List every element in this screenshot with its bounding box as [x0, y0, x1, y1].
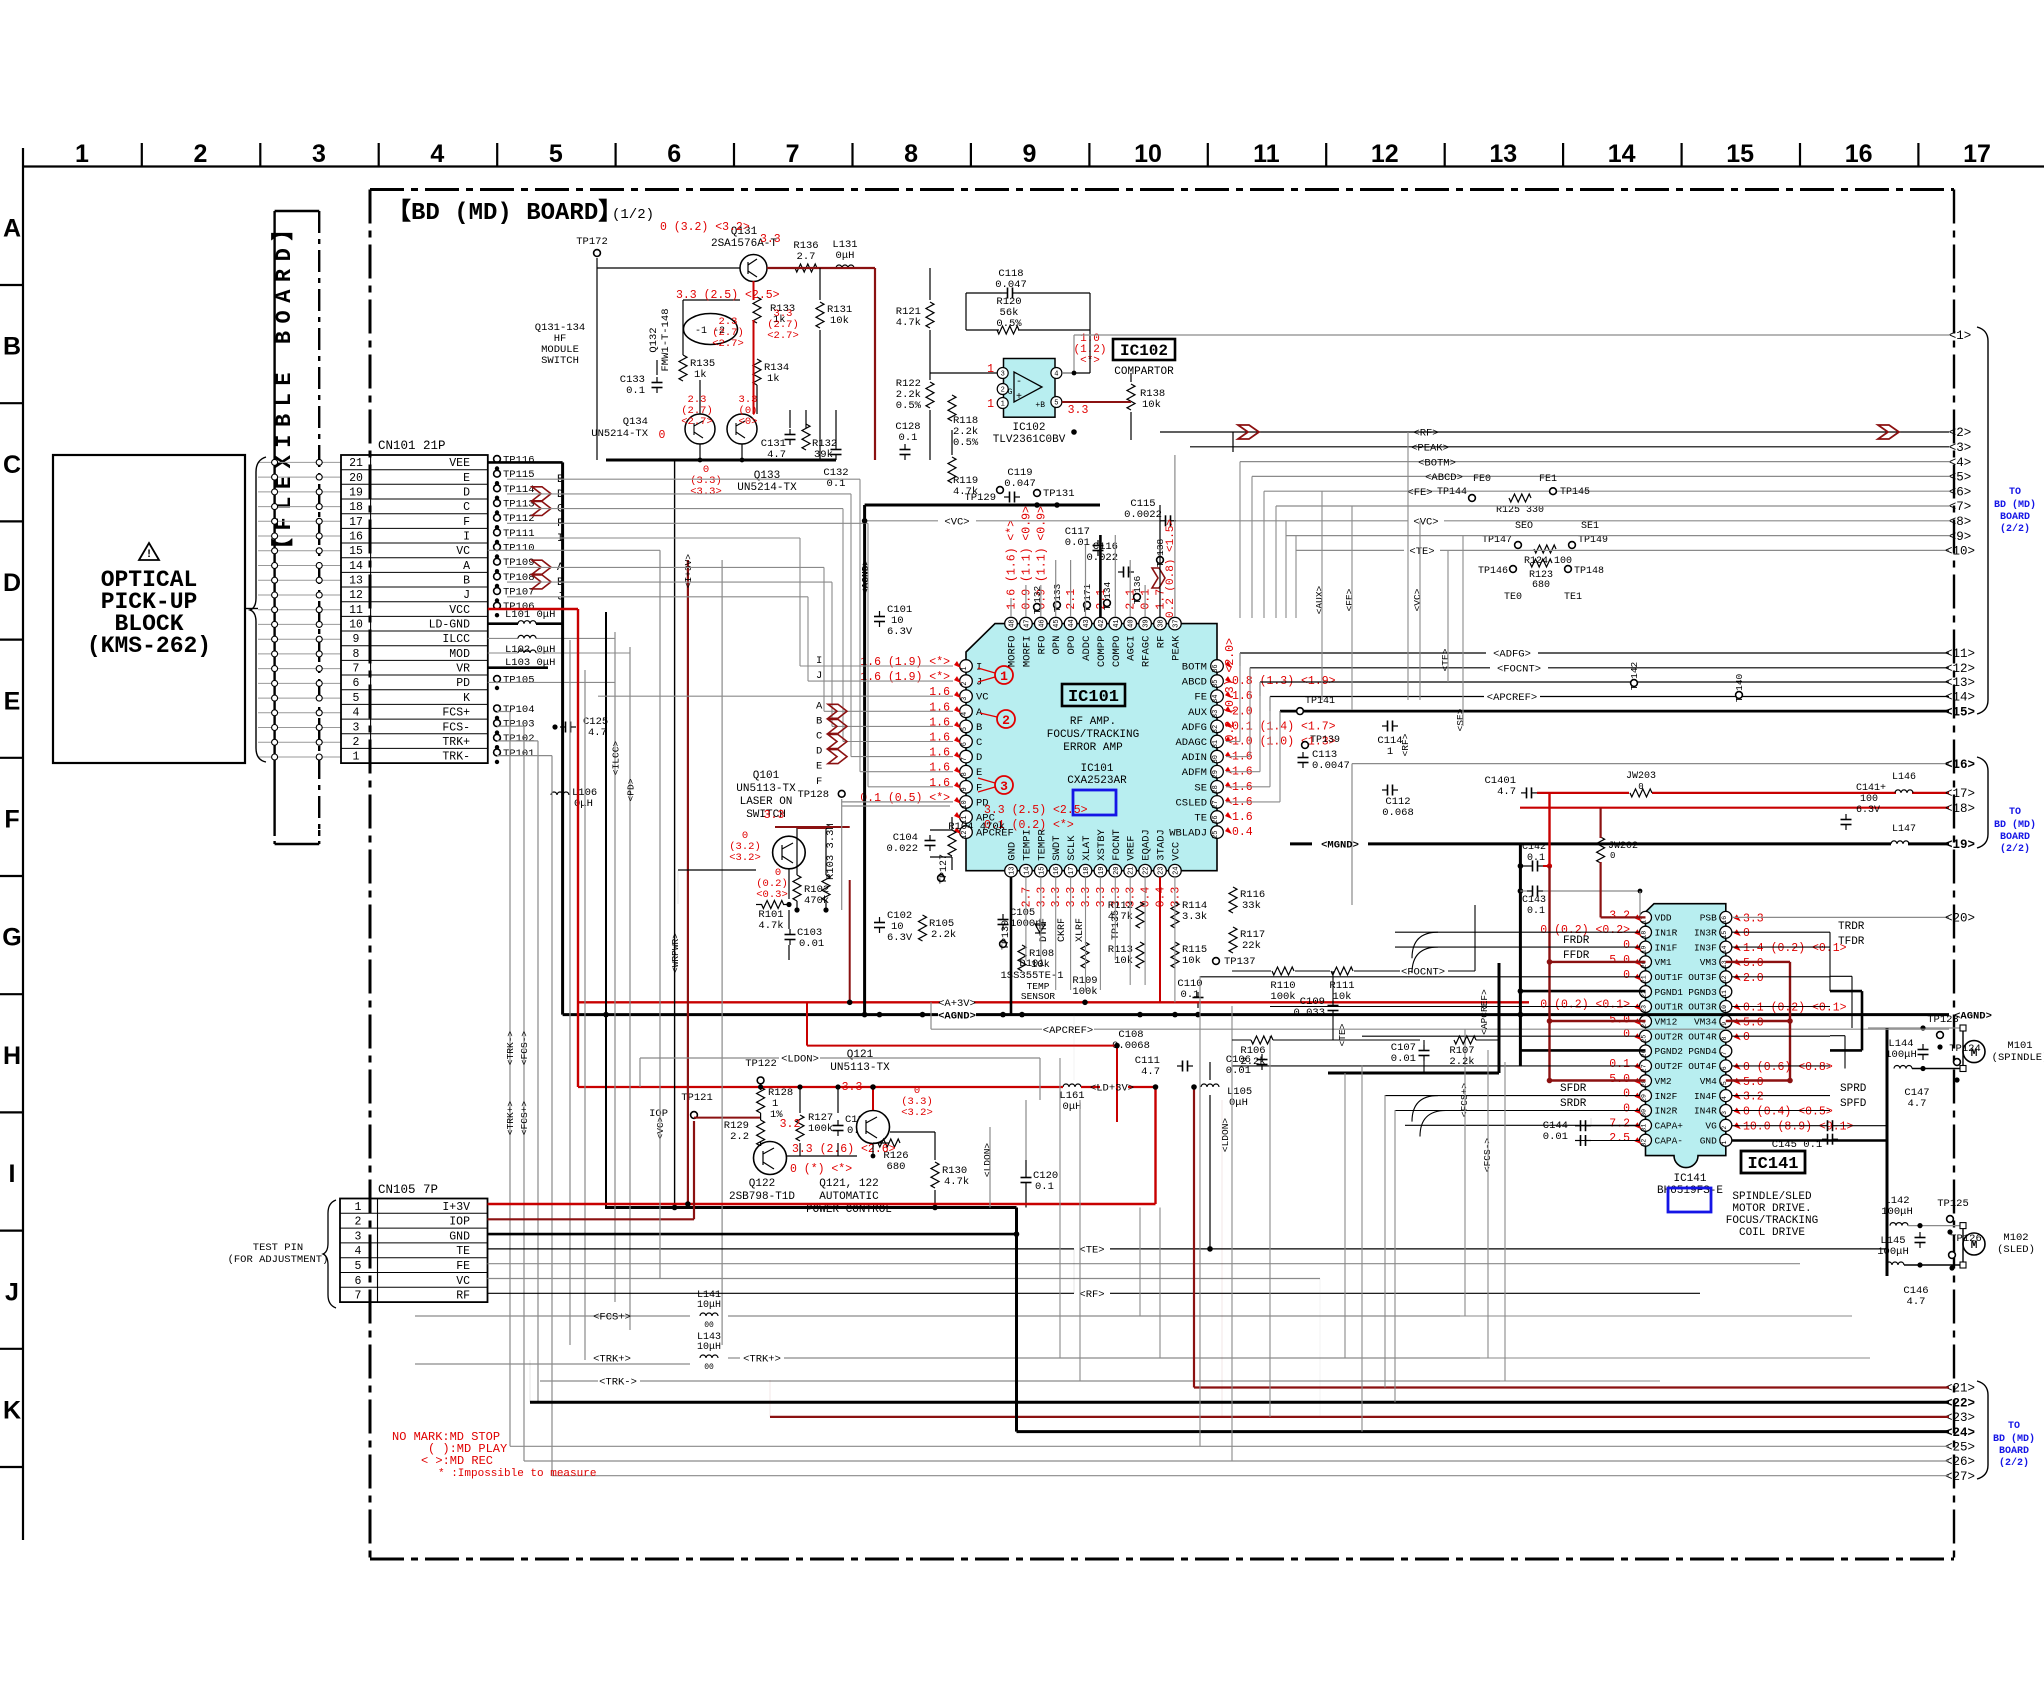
svg-text:PSB: PSB [1700, 913, 1717, 924]
resistor R113 10k [1136, 942, 1144, 968]
svg-text:K: K [3, 1397, 21, 1425]
svg-text:<PEAK>: <PEAK> [1411, 443, 1449, 455]
svg-text:<FE>: <FE> [1344, 588, 1355, 611]
svg-text:TP172: TP172 [576, 236, 608, 248]
svg-text:0.1 (0.2) <0.1>: 0.1 (0.2) <0.1> [1743, 1002, 1847, 1015]
capacitor C109 0.033 [1332, 1000, 1334, 1006]
svg-text:Q101: Q101 [753, 770, 780, 782]
svg-text:3: 3 [353, 721, 360, 734]
svg-text:<TE>: <TE> [1440, 648, 1451, 671]
wire vertical dark red Q101 [849, 880, 851, 1002]
wire thick bus mid [1328, 1072, 1499, 1075]
svg-text:R104 470k: R104 470k [948, 821, 1005, 833]
wire row26 [524, 1460, 1949, 1462]
wire row1 to edge [1074, 334, 1949, 336]
capacitor C101 10 6.3V [879, 611, 881, 617]
svg-text:8: 8 [961, 772, 969, 776]
svg-text:CXA2523AR: CXA2523AR [1067, 775, 1127, 787]
svg-text:0.1: 0.1 [899, 432, 918, 444]
svg-text:25: 25 [1212, 830, 1220, 838]
svg-text:EQADJ: EQADJ [1141, 829, 1153, 861]
wire thick VC bus top [865, 504, 1100, 507]
red chevron arrows CN101 [532, 487, 551, 589]
svg-text:3.3 (2.5) <2.5>: 3.3 (2.5) <2.5> [984, 804, 1088, 817]
connector CN101 row text [349, 457, 470, 763]
svg-text:18: 18 [1641, 931, 1648, 939]
svg-text:<3.2>: <3.2> [729, 852, 761, 864]
resistor R102 470k [793, 875, 801, 901]
svg-text:10k: 10k [1182, 955, 1201, 967]
svg-text:100: 100 [1860, 794, 1878, 805]
svg-text:<3.2>: <3.2> [901, 1107, 933, 1119]
svg-text:3.2: 3.2 [780, 1118, 801, 1131]
svg-text:100k: 100k [1270, 991, 1295, 1003]
wire VC row to pin3 [598, 695, 953, 697]
red legend NO MARK MD STOP [392, 1430, 596, 1480]
svg-text:1: 1 [987, 398, 994, 411]
svg-text:<TRK+>: <TRK+> [593, 1354, 631, 1366]
svg-text:0: 0 [1623, 939, 1630, 952]
svg-text:0.0022: 0.0022 [1124, 509, 1162, 521]
svg-text:4: 4 [353, 707, 360, 720]
vertical net labels FCS right [982, 1083, 1493, 1178]
wire K row [488, 681, 615, 683]
svg-text:3.3: 3.3 [1068, 404, 1089, 417]
wires from top pins up [1011, 455, 1175, 617]
svg-text:11: 11 [349, 604, 363, 617]
svg-text:2SB798-T1D: 2SB798-T1D [729, 1191, 795, 1203]
svg-text:<FCS+>: <FCS+> [593, 1312, 631, 1324]
svg-text:1k: 1k [767, 373, 780, 385]
test points TP116-TP106 [494, 455, 535, 618]
svg-text:6: 6 [355, 1275, 362, 1288]
svg-text:0.01: 0.01 [799, 938, 824, 950]
connector CN105 row text [355, 1201, 471, 1303]
red chevrons at IC101 A-D inputs [828, 704, 847, 763]
capacitor C132 0.1 [835, 444, 837, 450]
resistor R120 56k 0.5% [997, 326, 1019, 334]
svg-text:TP104: TP104 [503, 704, 535, 716]
svg-text:FCS-: FCS- [442, 721, 470, 734]
svg-text:OUT4F: OUT4F [1688, 1061, 1717, 1072]
red chevron arrows on RF line [1238, 425, 1899, 439]
svg-text:C: C [976, 737, 982, 749]
svg-text:0.4: 0.4 [1140, 887, 1153, 908]
svg-text:45: 45 [1053, 619, 1061, 627]
svg-text:BOTM: BOTM [1182, 662, 1207, 674]
transistor Q132 FMW1-T-148 [684, 314, 738, 345]
svg-text:OUT1R: OUT1R [1655, 1002, 1684, 1013]
svg-text:4.7k: 4.7k [758, 920, 783, 932]
svg-text:0.1 (0.5) <*>: 0.1 (0.5) <*> [860, 792, 950, 805]
svg-text:10μH: 10μH [697, 1342, 721, 1353]
svg-text:1: 1 [353, 751, 360, 764]
IC141 input wires left [1200, 932, 1639, 1125]
svg-text:3.3k: 3.3k [1182, 911, 1207, 923]
svg-text:0.1: 0.1 [626, 385, 645, 397]
svg-text:CSLED: CSLED [1175, 797, 1207, 809]
capacitor C111 4.7 [1177, 1065, 1183, 1067]
svg-text:MORFO: MORFO [1007, 636, 1019, 668]
wire AGND bus thick [563, 1013, 938, 1016]
svg-text:SFDR: SFDR [1560, 1083, 1587, 1095]
svg-text:I: I [976, 662, 982, 674]
IC141 wire name labels [1560, 921, 1867, 1110]
svg-text:<24>: <24> [1945, 1426, 1975, 1440]
svg-text:0.01: 0.01 [1391, 1053, 1416, 1065]
IC101 bottom pins 13-24 [1005, 828, 1183, 877]
svg-text:Q122: Q122 [749, 1178, 775, 1190]
svg-text:VG: VG [1705, 1121, 1717, 1132]
svg-text:<22>: <22> [1945, 1396, 1975, 1410]
svg-text:UN5113-TX: UN5113-TX [830, 1062, 890, 1074]
svg-text:IC101: IC101 [1068, 688, 1119, 707]
svg-text:PGND3: PGND3 [1688, 987, 1717, 998]
resistor R108 10k [1018, 945, 1026, 971]
svg-text:BD (MD): BD (MD) [1993, 1433, 2035, 1445]
svg-text:<ILCC>: <ILCC> [610, 741, 621, 776]
svg-text:VCC: VCC [449, 604, 470, 617]
svg-text:<12>: <12> [1945, 662, 1975, 676]
svg-text:SWDT: SWDT [1051, 835, 1063, 860]
svg-text:VM2: VM2 [1655, 1076, 1672, 1087]
svg-text:2.5: 2.5 [1609, 1132, 1630, 1145]
svg-text:5: 5 [355, 1260, 362, 1273]
svg-text:6: 6 [1721, 1066, 1728, 1070]
motor area wires [1868, 1025, 1963, 1276]
svg-text:TP149: TP149 [1578, 535, 1608, 546]
svg-text:IC102: IC102 [1120, 342, 1168, 360]
capacitor C119 0.047 [1004, 496, 1010, 498]
svg-text:28: 28 [1212, 785, 1220, 793]
capacitor C147 4.7 [1922, 1044, 1924, 1050]
svg-text:IN3R: IN3R [1694, 928, 1717, 939]
verticals from bundle A to IC101 [1240, 462, 1296, 618]
svg-text:10: 10 [1134, 140, 1162, 168]
capacitor C103 0.01 [789, 929, 791, 935]
edge bracket 21-27 [1977, 1381, 1988, 1479]
IC101 bottom pin red voltages [1020, 887, 1182, 908]
svg-text:3.2: 3.2 [1743, 1091, 1764, 1104]
resistor R133 1k [753, 297, 761, 323]
svg-text:9: 9 [1023, 140, 1037, 168]
svg-text:FFDR: FFDR [1563, 950, 1590, 962]
capacitor C125 4.7 [560, 726, 566, 728]
svg-text:0μH: 0μH [1063, 1101, 1082, 1113]
IC141 right pins 16-1 [1688, 911, 1732, 1146]
wire LDON net [820, 1057, 1040, 1059]
svg-text:<ABCD>: <ABCD> [1425, 472, 1463, 484]
wire row23 dark red [770, 1416, 1949, 1418]
svg-text:4.7: 4.7 [588, 727, 607, 739]
svg-text:100k: 100k [808, 1123, 833, 1135]
svg-text:VM4: VM4 [1700, 1076, 1717, 1087]
svg-text:8: 8 [1721, 1037, 1728, 1041]
svg-text:0μH: 0μH [836, 250, 855, 262]
flexible board pin circles [272, 459, 323, 760]
svg-text:0: 0 [1623, 1088, 1630, 1101]
diode D101 temp sensor [1035, 924, 1045, 933]
svg-text:IC141: IC141 [1747, 1155, 1798, 1174]
TO BD MD BOARD blue text 3 [1993, 1421, 2035, 1469]
svg-text:G: G [2, 924, 21, 952]
svg-text:<MGND>: <MGND> [1321, 840, 1359, 852]
resistor R111 10k [1295, 970, 1330, 972]
wire vertical x990 LDON [989, 1127, 991, 1208]
resistor R114 3.3k [1171, 902, 1179, 928]
svg-text:0.047: 0.047 [995, 279, 1027, 291]
test point TP131 [1034, 490, 1041, 497]
capacitor C120 0.1 [1025, 1172, 1027, 1178]
svg-text:Q121: Q121 [847, 1049, 874, 1061]
svg-text:1: 1 [1001, 401, 1005, 409]
svg-text:Q121, 122: Q121, 122 [819, 1178, 878, 1190]
svg-text:VM12: VM12 [1655, 1017, 1678, 1028]
wires Q134 Q133 to bus [699, 444, 701, 460]
edge bracket 1-15 [1977, 327, 1988, 714]
svg-text:VR: VR [456, 663, 470, 676]
svg-text:SCLK: SCLK [1066, 835, 1078, 861]
svg-text:PEAK: PEAK [1170, 635, 1182, 661]
svg-text:0.5%: 0.5% [896, 400, 922, 412]
svg-text:<7>: <7> [1949, 500, 1972, 514]
svg-text:<LDON>: <LDON> [982, 1143, 993, 1178]
svg-text:E: E [4, 687, 21, 715]
svg-text:<FOCNT>: <FOCNT> [1497, 664, 1541, 676]
svg-text:B: B [976, 722, 982, 734]
wire row25 [510, 1445, 1949, 1447]
svg-text:TP144: TP144 [1437, 487, 1467, 498]
edge bracket 16-19 [1977, 757, 1988, 848]
svg-text:TE1: TE1 [1564, 592, 1582, 603]
svg-text:BOARD: BOARD [2000, 832, 2030, 843]
svg-text:33k: 33k [1242, 900, 1261, 912]
svg-text:OUT3F: OUT3F [1688, 972, 1717, 983]
svg-text:FOCNT: FOCNT [1111, 829, 1123, 861]
svg-text:Q132: Q132 [648, 327, 660, 352]
svg-text:0: 0 [1743, 1031, 1750, 1044]
svg-text:31: 31 [1212, 740, 1220, 748]
svg-text:7: 7 [786, 140, 800, 168]
svg-text:10: 10 [1721, 1005, 1728, 1013]
left ruler letters A-K [2, 215, 21, 1425]
svg-text:00: 00 [704, 1363, 714, 1372]
svg-text:32: 32 [1641, 1139, 1648, 1147]
wire vertical gray x722 [721, 560, 723, 1345]
svg-text:3: 3 [961, 697, 969, 701]
svg-text:F: F [976, 782, 982, 794]
svg-text:<TRK+>: <TRK+> [743, 1354, 781, 1366]
wire TRK- row [540, 1380, 598, 1382]
capacitor C128 0.1 [904, 444, 906, 450]
wire vertical x1222 dark red [1221, 1100, 1223, 1417]
svg-text:!: ! [146, 549, 153, 561]
wire vertical WRPWR [674, 460, 676, 1208]
svg-text:10k: 10k [830, 315, 849, 327]
svg-text:<8>: <8> [1949, 515, 1972, 529]
svg-text:TP124: TP124 [1949, 1043, 1981, 1055]
net FOCNT mid [1354, 970, 1400, 972]
svg-text:B: B [816, 715, 822, 727]
capacitor C105 1000p [1002, 914, 1004, 920]
edge connector arrows 21-27 [1945, 1382, 1975, 1484]
svg-text:RFO: RFO [1036, 636, 1048, 655]
svg-text:2.2: 2.2 [730, 1131, 749, 1143]
svg-text:SPINDLE/SLED: SPINDLE/SLED [1732, 1191, 1812, 1203]
svg-text:43: 43 [1083, 619, 1091, 627]
IC141 left pin red voltages [1540, 909, 1641, 1145]
svg-text:<AGND>: <AGND> [860, 560, 871, 595]
IC141 boxed ref label [1741, 1151, 1805, 1173]
svg-text:TP102: TP102 [503, 733, 535, 745]
svg-text:(FOR ADJUSTMENT): (FOR ADJUSTMENT) [228, 1254, 329, 1266]
svg-text:<14>: <14> [1945, 691, 1975, 705]
svg-text:0 (0.4) <0.5>: 0 (0.4) <0.5> [1743, 1106, 1833, 1119]
svg-text:FRDR: FRDR [1563, 935, 1590, 947]
top ruler ticks [142, 143, 1919, 167]
svg-text:2: 2 [353, 736, 360, 749]
svg-text:C: C [816, 731, 822, 743]
transistor Q122 2SB798-T1D [754, 1142, 787, 1175]
wire VCC red vertical [577, 609, 579, 1087]
CN105 left brace [323, 1200, 336, 1308]
capacitor C133 0.1 [656, 377, 658, 383]
svg-text:TP141: TP141 [1305, 696, 1335, 707]
svg-text:I: I [9, 1160, 16, 1188]
svg-text:TRK+: TRK+ [442, 736, 470, 749]
svg-text:12: 12 [1371, 140, 1399, 168]
wire IC101 left input fan [507, 479, 953, 788]
wire APCREF [931, 1028, 1042, 1030]
resistor R135 1k [679, 355, 687, 381]
svg-text:VM34: VM34 [1694, 1017, 1717, 1028]
svg-text:TRK-: TRK- [442, 751, 470, 764]
svg-text:VEE: VEE [449, 457, 470, 470]
connector CN101 table [341, 455, 488, 763]
OPTICAL PICK-UP BLOCK text [87, 567, 211, 659]
svg-text:R125 330: R125 330 [1496, 505, 1544, 516]
IC101 boxed ref label [1062, 684, 1125, 706]
comparator IC102 body TLV2361C0BV [1004, 359, 1056, 418]
svg-text:VC: VC [456, 545, 470, 558]
svg-text:TO: TO [2009, 487, 2021, 498]
svg-text:1.6 (1.9) <*>: 1.6 (1.9) <*> [860, 671, 950, 684]
svg-text:<RF>: <RF> [1413, 428, 1438, 440]
Q121 122 AUTOMATIC POWER CONTROL text [806, 1178, 892, 1216]
svg-text:0.1: 0.1 [1527, 853, 1545, 864]
test point TP137 [1213, 958, 1220, 965]
svg-text:A: A [463, 560, 470, 573]
svg-text:<18>: <18> [1945, 802, 1975, 816]
Q131 cluster wires [597, 258, 875, 460]
svg-text:<19>: <19> [1945, 838, 1975, 852]
svg-text:CAPA-: CAPA- [1655, 1135, 1684, 1146]
svg-text:TP105: TP105 [503, 675, 535, 687]
svg-text:<APCREF>: <APCREF> [1043, 1025, 1093, 1037]
svg-text:15: 15 [1721, 931, 1728, 939]
svg-text:<VC>: <VC> [944, 517, 969, 529]
transistor Q133 UN5214-TX [727, 414, 757, 444]
IC101 right pins 36-25 [1169, 660, 1223, 840]
svg-text:SPRD: SPRD [1840, 1083, 1867, 1095]
motor M101 SPINDLE [1963, 1041, 1985, 1063]
svg-text:5: 5 [549, 140, 563, 168]
svg-text:<9>: <9> [1949, 530, 1972, 544]
motor terminal squares [1960, 1025, 1966, 1268]
svg-text:10.0 (8.9) <9.1>: 10.0 (8.9) <9.1> [1743, 1120, 1854, 1133]
svg-text:<25>: <25> [1945, 1441, 1975, 1455]
svg-text:LD-GND: LD-GND [429, 619, 471, 632]
IC102 boxed ref label [1113, 339, 1175, 360]
svg-text:0.047: 0.047 [1004, 478, 1036, 490]
svg-text:M102: M102 [2003, 1232, 2028, 1244]
svg-text:I+3V: I+3V [442, 1201, 470, 1214]
wire CN105 I+3V red [488, 1203, 1156, 1205]
svg-text:5: 5 [961, 727, 969, 731]
svg-text:<20>: <20> [1945, 912, 1975, 926]
wire VC net from CN101 row15 [488, 549, 660, 551]
resistor R116 33k [1229, 887, 1237, 913]
svg-text:OUT3R: OUT3R [1688, 1002, 1717, 1013]
svg-text:<A+3V>: <A+3V> [938, 998, 976, 1010]
flexible board pin rows wires [258, 462, 341, 757]
svg-text:TP139: TP139 [1310, 735, 1340, 746]
svg-text:6.3V: 6.3V [887, 932, 913, 944]
svg-text:VM1: VM1 [1655, 957, 1672, 968]
resistor R118 2.2k 0.5% [948, 395, 956, 421]
svg-text:SWITCH: SWITCH [541, 355, 579, 367]
svg-text:<2>: <2> [1949, 426, 1972, 440]
svg-text:-: - [1016, 377, 1022, 388]
svg-text:<SE>: <SE> [1455, 708, 1466, 731]
svg-text:3.3: 3.3 [1169, 887, 1182, 908]
wire ADFG net [1240, 652, 1486, 654]
svg-text:3.3: 3.3 [1035, 887, 1048, 908]
svg-text:JW203: JW203 [1626, 771, 1656, 782]
svg-text:4.7k: 4.7k [1108, 911, 1133, 923]
resistor R128 1 1% [757, 1087, 765, 1113]
svg-text:0: 0 [1623, 1028, 1630, 1041]
svg-text:<VC>: <VC> [1413, 517, 1438, 529]
wire VEE thick row [488, 461, 563, 464]
svg-text:<3.3>: <3.3> [690, 486, 722, 498]
resistor R117 22k [1229, 927, 1237, 953]
svg-text:TP122: TP122 [745, 1058, 777, 1070]
capacitor C106 0.01 [1261, 1054, 1263, 1060]
svg-text:20: 20 [349, 472, 363, 485]
svg-text:13: 13 [1009, 866, 1017, 874]
svg-text:OUT2F: OUT2F [1655, 1061, 1684, 1072]
svg-text:SEO: SEO [1515, 521, 1533, 532]
svg-text:16: 16 [349, 531, 363, 544]
svg-text:5.0: 5.0 [1743, 1016, 1764, 1029]
svg-text:I: I [463, 531, 470, 544]
red chevron at TP136 [1152, 568, 1165, 588]
svg-text:1.6: 1.6 [929, 701, 950, 714]
resistor R134 1k [753, 359, 761, 385]
svg-text:Q134: Q134 [623, 416, 648, 428]
svg-text:<0>: <0> [739, 416, 758, 428]
svg-text:3: 3 [1000, 779, 1008, 794]
resistor R119 4.7k [948, 457, 956, 483]
svg-text:TP125: TP125 [1937, 1198, 1969, 1210]
svg-text:4.7: 4.7 [1141, 1066, 1160, 1078]
resistor R107 2.2k [1454, 1036, 1476, 1044]
svg-text:22k: 22k [1242, 940, 1261, 952]
svg-text:3.2: 3.2 [1609, 909, 1630, 922]
svg-text:3.3: 3.3 [1065, 887, 1078, 908]
svg-text:23: 23 [1158, 866, 1166, 874]
